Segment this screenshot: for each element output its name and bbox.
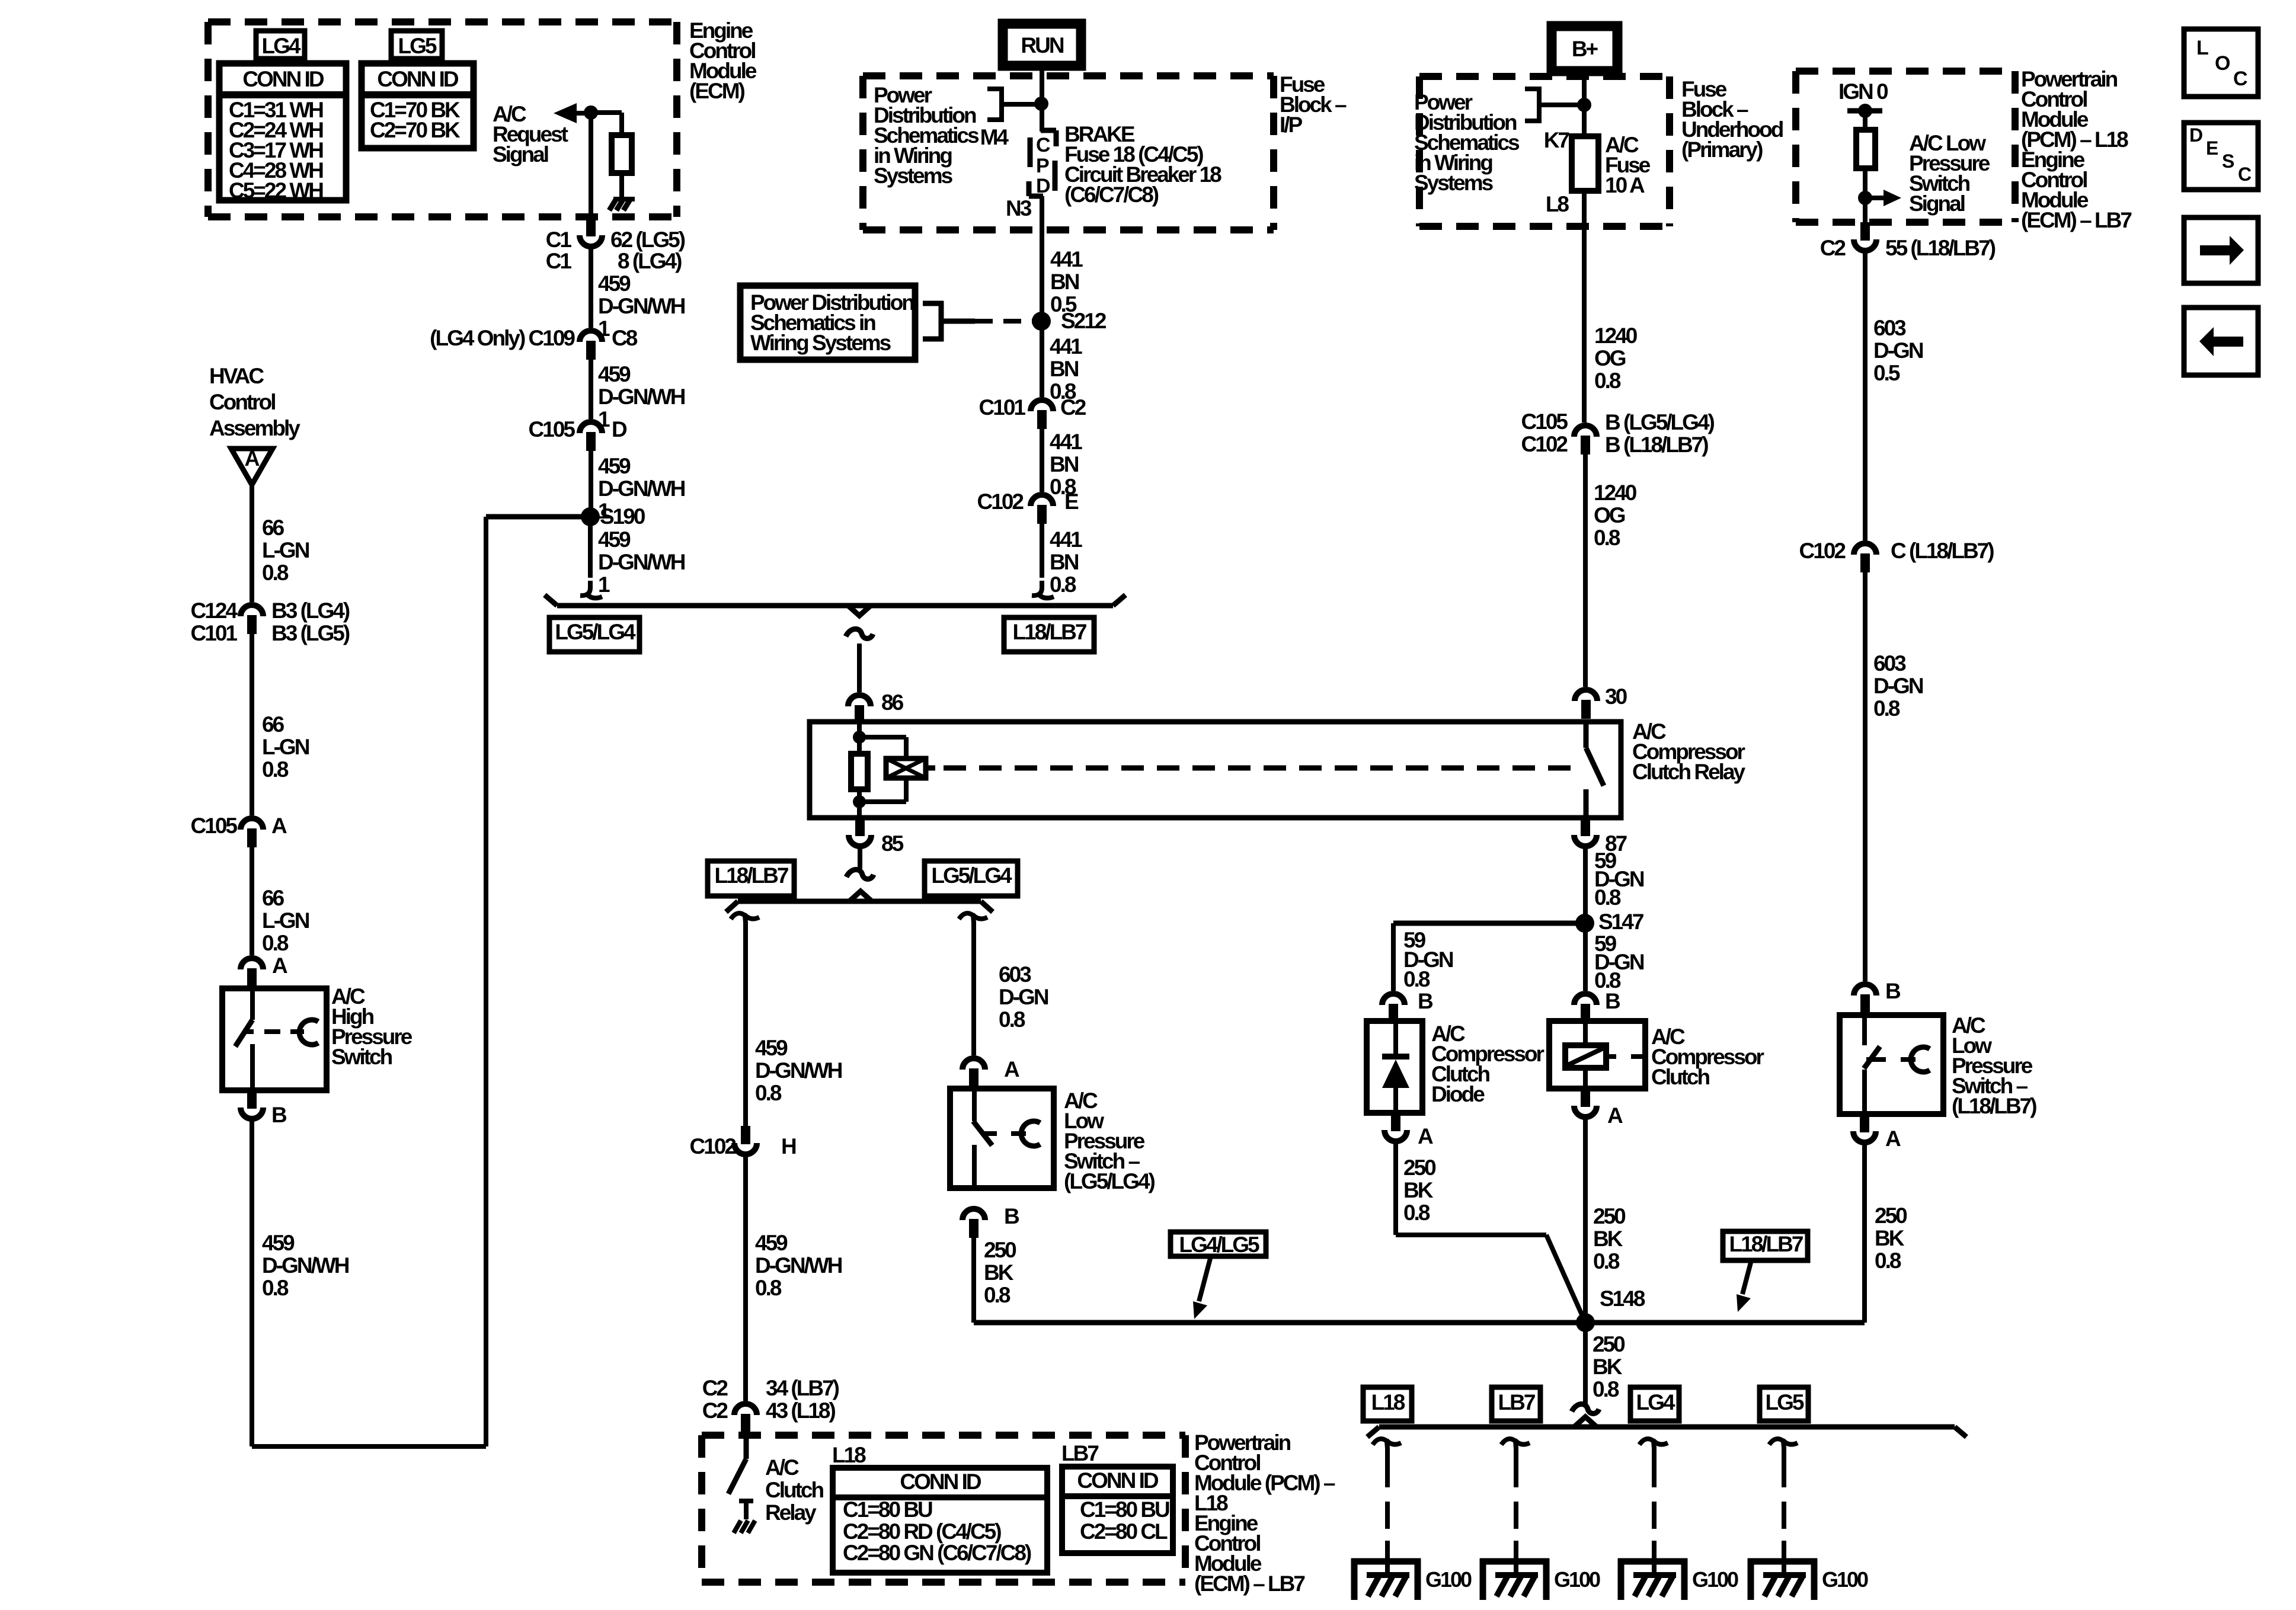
svg-text:LG5/LG4: LG5/LG4 — [555, 620, 636, 644]
connector C1 (ECM) 62/8 — [586, 218, 596, 236]
svg-text:Clutch: Clutch — [1651, 1065, 1710, 1089]
svg-text:BN: BN — [1050, 550, 1079, 574]
connector C102 pin H — [741, 1126, 750, 1144]
wire 459 D-GN/WH segment 1 — [589, 249, 593, 328]
svg-text:603: 603 — [1873, 316, 1906, 340]
svg-text:D-GN/WH: D-GN/WH — [598, 476, 685, 501]
svg-text:BK: BK — [1403, 1178, 1434, 1202]
svg-text:0.8: 0.8 — [1403, 967, 1430, 991]
svg-text:RUN: RUN — [1021, 33, 1063, 57]
svg-text:CONN ID: CONN ID — [900, 1470, 981, 1494]
wire 85 to bus2 with break — [858, 849, 862, 869]
svg-text:C1=80 BU: C1=80 BU — [1080, 1497, 1169, 1522]
wire B+ to fuse block — [1582, 72, 1587, 136]
B+ power feed box — [1552, 26, 1617, 71]
connector pin B at clutch diode — [1382, 994, 1405, 1005]
clutch coil symbol — [1583, 1021, 1588, 1045]
A/C clutch relay ground contact — [739, 1499, 753, 1503]
svg-text:0.5: 0.5 — [1873, 361, 1900, 385]
connector pin A below diode — [1391, 1113, 1400, 1131]
power distribution bracket (I/P) — [987, 87, 1002, 91]
connector label box LG4 — [256, 31, 305, 59]
node: signal sense junction — [1858, 191, 1872, 205]
svg-text:C102: C102 — [1521, 432, 1568, 456]
svg-text:L8: L8 — [1546, 192, 1569, 216]
svg-text:C102: C102 — [977, 489, 1024, 514]
connector pin 87 — [1581, 818, 1590, 836]
svg-text:LB7: LB7 — [1498, 1390, 1535, 1414]
svg-text:34 (LB7): 34 (LB7) — [766, 1376, 839, 1400]
svg-text:G100: G100 — [1554, 1567, 1600, 1592]
fuse BRAKE Fuse 18 / Circuit Breaker 18 (CPD symbol) — [1041, 128, 1056, 133]
node: A/C request junction — [584, 105, 598, 120]
ground G100 (LG4) — [1618, 1558, 1687, 1565]
wire: horizontal into S190 — [486, 514, 590, 520]
svg-text:(ECM) – LB7: (ECM) – LB7 — [1194, 1571, 1304, 1596]
svg-text:S148: S148 — [1600, 1286, 1645, 1311]
ground G100 (L18) — [1351, 1558, 1421, 1565]
wire 250 BK below S148 to ground bus — [1583, 1323, 1588, 1404]
legend box DESC — [2184, 123, 2258, 190]
wire bus to relay pin 86 — [857, 644, 862, 692]
svg-text:441: 441 — [1050, 247, 1083, 271]
svg-text:0.8: 0.8 — [1875, 1249, 1901, 1273]
connector pin B at low pressure switch L18/LB7 — [1854, 984, 1876, 996]
svg-text:L-GN: L-GN — [262, 908, 309, 933]
svg-text:B: B — [1885, 979, 1901, 1003]
svg-text:459: 459 — [598, 271, 631, 296]
svg-text:C102: C102 — [690, 1134, 737, 1158]
relay mechanical link (dashed) — [944, 766, 1574, 771]
svg-text:B: B — [1004, 1204, 1019, 1228]
Fuse Block Underhood dashed box — [1419, 73, 1670, 80]
connector pin A at low pressure switch LG5/LG4 — [962, 1058, 985, 1070]
svg-text:C1: C1 — [546, 228, 572, 252]
svg-text:86: 86 — [881, 690, 904, 715]
ground (ECM internal) — [613, 197, 635, 201]
connector pin 86 — [848, 695, 871, 706]
wire resistor to ground — [619, 173, 624, 198]
svg-text:B3 (LG5): B3 (LG5) — [271, 621, 350, 645]
svg-text:E: E — [2206, 137, 2218, 159]
svg-text:LG5: LG5 — [398, 34, 437, 58]
diode symbol — [1393, 1021, 1398, 1056]
connector label box LG5 — [391, 31, 442, 59]
wire 603 D-GN 0.8 — [1863, 572, 1868, 981]
PCM dashed box (bottom) — [702, 1432, 1185, 1439]
svg-text:G100: G100 — [1692, 1567, 1738, 1592]
svg-text:C105: C105 — [1521, 409, 1568, 434]
svg-text:Clutch Relay: Clutch Relay — [1632, 760, 1746, 784]
connector C2/C2 pins 34/43 — [734, 1404, 757, 1415]
net label box LG5/LG4 — [549, 617, 639, 652]
wire: loop bottom horizontal — [252, 1444, 486, 1449]
svg-text:A/C: A/C — [765, 1455, 799, 1480]
relay switch blade — [1584, 722, 1589, 748]
A/C clutch relay blade (inside PCM) — [744, 1433, 749, 1459]
wire 66 L-GN segment 3 — [250, 847, 254, 955]
connector pin B below switch — [962, 1209, 985, 1220]
svg-text:G100: G100 — [1822, 1567, 1868, 1592]
svg-text:E: E — [1064, 489, 1079, 514]
svg-text:441: 441 — [1050, 527, 1082, 552]
svg-text:10 A: 10 A — [1605, 173, 1645, 197]
svg-text:0.8: 0.8 — [755, 1081, 782, 1105]
svg-text:(ECM) – LB7: (ECM) – LB7 — [2021, 208, 2131, 232]
ECM module dashed box (Engine Control Module) — [208, 18, 677, 25]
svg-text:C8: C8 — [612, 326, 638, 350]
svg-text:L-GN: L-GN — [262, 735, 309, 759]
svg-text:0.8: 0.8 — [1594, 885, 1621, 910]
legend arrow right — [2184, 217, 2258, 283]
net label box LG5/LG4 (middle) — [925, 861, 1018, 896]
net label box LB7 (ground) — [1492, 1387, 1540, 1421]
connector C109 (LG4 Only) pin C8 — [580, 331, 602, 342]
connector pin B at compressor clutch — [1574, 994, 1597, 1005]
Fuse Block I/P dashed box — [863, 72, 1274, 79]
wire 459 D-GN/WH below S190 — [588, 517, 593, 578]
svg-text:C101: C101 — [191, 621, 238, 645]
svg-text:D-GN: D-GN — [999, 985, 1048, 1009]
connector C101 pin C2 — [1031, 400, 1053, 411]
svg-text:(LG4 Only) C109: (LG4 Only) C109 — [430, 326, 575, 350]
svg-text:BN: BN — [1050, 270, 1079, 294]
svg-text:Signal: Signal — [1909, 191, 1965, 216]
svg-text:C2: C2 — [1820, 236, 1846, 260]
break symbol below bus to relay coil — [846, 629, 873, 638]
resistor (ECM internal pull-up) — [612, 135, 632, 173]
svg-text:D-GN: D-GN — [1873, 338, 1923, 363]
net label box L18/LB7 — [1004, 617, 1094, 652]
svg-text:S190: S190 — [600, 504, 645, 529]
dashed link to power distribution — [975, 319, 1036, 324]
connector C102 pin C — [1854, 543, 1876, 555]
svg-text:(Primary): (Primary) — [1681, 137, 1763, 162]
svg-text:459: 459 — [598, 527, 631, 552]
svg-text:BN: BN — [1050, 452, 1079, 476]
svg-text:0.8: 0.8 — [1594, 526, 1620, 550]
A/C Compressor Clutch box — [1549, 1021, 1645, 1089]
svg-text:CONN ID: CONN ID — [377, 67, 459, 91]
svg-text:Switch: Switch — [331, 1045, 392, 1069]
svg-text:M4: M4 — [980, 125, 1009, 149]
svg-text:C1=80 BU: C1=80 BU — [843, 1497, 932, 1522]
svg-text:OG: OG — [1594, 503, 1625, 527]
wire 459 D-GN/WH to PCM — [743, 1157, 748, 1401]
svg-text:B3 (LG4): B3 (LG4) — [271, 598, 350, 623]
svg-text:C124: C124 — [191, 598, 238, 623]
svg-text:A: A — [245, 446, 260, 470]
svg-text:K7: K7 — [1544, 128, 1569, 152]
svg-text:C: C — [2233, 68, 2247, 90]
wire 1240 OG 0.8 — [1582, 191, 1587, 422]
svg-text:85: 85 — [881, 831, 904, 856]
svg-text:Systems: Systems — [1414, 171, 1494, 195]
connector C105 pin A — [241, 818, 263, 830]
svg-text:H: H — [781, 1134, 796, 1158]
svg-text:D-GN/WH: D-GN/WH — [598, 550, 685, 574]
svg-text:OG: OG — [1594, 346, 1626, 370]
callout box L18/LB7 with arrow — [1723, 1231, 1808, 1260]
low pressure switch symbol (L18/LB7) — [1862, 1015, 1867, 1045]
wire 59 D-GN from pin 87 — [1583, 849, 1588, 923]
connector C124/C101 pin B3 — [241, 605, 263, 616]
HVAC control assembly triangle A — [231, 449, 273, 485]
svg-text:C (L18/LB7): C (L18/LB7) — [1891, 539, 1994, 563]
svg-text:66: 66 — [262, 712, 284, 737]
svg-text:0.8: 0.8 — [1593, 1377, 1619, 1401]
svg-text:A: A — [272, 953, 287, 978]
wire RUN to fuse block — [1040, 66, 1044, 132]
high pressure switch symbol — [250, 988, 255, 1020]
resistor (PCM internal) — [1863, 111, 1868, 130]
svg-text:C2: C2 — [702, 1376, 728, 1400]
net label box L18/LB7 (middle) — [708, 861, 794, 896]
svg-text:C105: C105 — [191, 814, 238, 838]
connector C105 pin D — [580, 422, 602, 433]
wire coil to pin 85 — [857, 802, 862, 818]
PCM L18 CONN ID table — [833, 1468, 1047, 1573]
connector pin A below switch (L18/LB7) — [1860, 1114, 1869, 1132]
svg-text:BK: BK — [984, 1260, 1014, 1285]
svg-text:B (LG5/LG4): B (LG5/LG4) — [1605, 410, 1715, 434]
drop hook right (603 wire) — [959, 913, 974, 923]
svg-text:L18/LB7: L18/LB7 — [1729, 1232, 1803, 1256]
svg-text:B+: B+ — [1572, 37, 1598, 61]
wire 603 D-GN 0.5 — [1863, 253, 1868, 540]
node: relay coil top junction — [853, 731, 866, 744]
svg-text:0.8: 0.8 — [984, 1283, 1011, 1307]
svg-text:459: 459 — [755, 1231, 788, 1255]
drop hook left (459 wire) — [731, 913, 746, 923]
low pressure switch symbol (LG5/LG4) — [972, 1089, 977, 1121]
svg-text:BK: BK — [1593, 1227, 1623, 1251]
svg-text:250: 250 — [1593, 1332, 1625, 1356]
wire 250 BK clutch to S148 — [1583, 1119, 1588, 1323]
svg-text:0.8: 0.8 — [1403, 1201, 1430, 1225]
svg-text:C2=70 BK: C2=70 BK — [370, 118, 461, 142]
ground wire LB7 — [1501, 1439, 1516, 1448]
legend arrow left — [2184, 308, 2258, 375]
svg-text:BK: BK — [1875, 1226, 1905, 1250]
node: junction under B+ — [1577, 98, 1591, 112]
svg-text:0.8: 0.8 — [1593, 1249, 1620, 1273]
svg-text:IGN 0: IGN 0 — [1838, 79, 1888, 104]
legend box LOC — [2184, 29, 2258, 97]
svg-text:66: 66 — [262, 886, 284, 910]
svg-text:A: A — [1885, 1126, 1901, 1151]
node: relay coil bottom junction — [853, 795, 866, 808]
svg-text:Assembly: Assembly — [209, 416, 300, 440]
svg-text:BK: BK — [1593, 1355, 1623, 1379]
node S148 — [1576, 1313, 1595, 1332]
svg-text:0.8: 0.8 — [262, 561, 289, 585]
connector pin A below clutch — [1581, 1089, 1590, 1107]
svg-text:CONN ID: CONN ID — [242, 67, 324, 91]
ground G100 (LB7) — [1480, 1558, 1549, 1565]
connector C2 pin 55 — [1860, 222, 1870, 241]
wire 250 BK from diode to S148 — [1393, 1144, 1398, 1235]
svg-text:43 (L18): 43 (L18) — [766, 1398, 836, 1423]
svg-text:L18/LB7: L18/LB7 — [1013, 620, 1086, 644]
svg-text:D-GN/WH: D-GN/WH — [598, 385, 685, 409]
wire 441 BN 0.5 — [1040, 196, 1044, 397]
bus line LG5/LG4 - L18/LB7 (top) — [557, 603, 1113, 609]
svg-text:L18: L18 — [1371, 1390, 1405, 1414]
svg-text:250: 250 — [1403, 1156, 1436, 1180]
wire: ground collector line to S148 — [974, 1320, 1865, 1326]
svg-text:66: 66 — [262, 516, 284, 540]
relay coil (resistor) — [851, 754, 868, 789]
svg-text:C2: C2 — [1060, 395, 1086, 420]
svg-text:B: B — [1418, 989, 1433, 1013]
bracket at power distribution box — [923, 301, 944, 306]
svg-text:L: L — [2196, 37, 2208, 59]
wire end hook into LG5/LG4-L18/LB7 bus — [580, 581, 590, 596]
svg-text:1240: 1240 — [1594, 324, 1638, 348]
svg-text:0.8: 0.8 — [1873, 696, 1900, 721]
svg-text:603: 603 — [999, 962, 1031, 987]
wire 59 D-GN to compressor clutch — [1583, 923, 1588, 991]
relay coil wire from 86 — [857, 722, 862, 737]
svg-text:D-GN/WH: D-GN/WH — [755, 1058, 842, 1083]
ground wire LG5 — [1769, 1439, 1784, 1448]
svg-text:0.8: 0.8 — [999, 1007, 1025, 1032]
wire 459 D-GN/WH from B down-around to S190 — [250, 1121, 254, 1446]
svg-text:603: 603 — [1873, 651, 1906, 676]
ground bus line — [1379, 1425, 1955, 1430]
node: IGN0 junction — [1858, 104, 1872, 118]
svg-text:62 (LG5): 62 (LG5) — [610, 228, 685, 252]
svg-text:S147: S147 — [1598, 910, 1643, 934]
svg-text:CONN ID: CONN ID — [1077, 1468, 1159, 1493]
connector C102 pin E — [1031, 495, 1053, 506]
svg-text:N3: N3 — [1006, 196, 1032, 220]
svg-text:LG4: LG4 — [262, 34, 301, 58]
svg-text:0.8: 0.8 — [755, 1276, 782, 1300]
wire end hook into bus — [1032, 581, 1042, 596]
A/C Compressor Clutch Diode box — [1367, 1021, 1422, 1113]
Power Distribution Schematics in Wiring Systems box — [740, 286, 915, 360]
svg-text:0.8: 0.8 — [1594, 369, 1621, 393]
LG5 CONN ID table — [362, 63, 474, 148]
svg-text:L18/LB7: L18/LB7 — [715, 863, 788, 888]
node: junction under RUN — [1034, 97, 1048, 111]
svg-text:Systems: Systems — [874, 164, 953, 188]
wire 441 BN 0.8 segment 3 — [1040, 524, 1044, 578]
svg-text:D: D — [1036, 175, 1050, 197]
node S212 — [1032, 312, 1051, 331]
svg-text:L18: L18 — [832, 1443, 866, 1467]
svg-text:Diode: Diode — [1431, 1082, 1485, 1106]
svg-text:LB7: LB7 — [1061, 1441, 1098, 1465]
svg-text:A: A — [1607, 1103, 1623, 1128]
wire 459 D-GN/WH segment 3 — [589, 451, 593, 517]
wire 59 D-GN diode branch down — [1391, 923, 1396, 991]
svg-text:250: 250 — [1593, 1204, 1626, 1228]
net label box L18 (ground) — [1363, 1387, 1412, 1421]
svg-text:441: 441 — [1050, 430, 1082, 454]
svg-text:Wiring Systems: Wiring Systems — [750, 331, 891, 355]
svg-text:(ECM): (ECM) — [689, 79, 745, 103]
svg-text:C105: C105 — [529, 417, 575, 441]
svg-text:A: A — [1418, 1124, 1433, 1148]
wire 459 D-GN/WH from bus2 — [743, 921, 748, 1126]
wire 66 L-GN segment 1 — [250, 485, 254, 602]
PCM LB7 CONN ID table — [1062, 1467, 1173, 1553]
svg-text:D-GN/WH: D-GN/WH — [755, 1253, 842, 1278]
node S147 — [1575, 914, 1594, 933]
wire: A/C request signal down to C1 — [589, 113, 593, 218]
svg-text:459: 459 — [262, 1231, 295, 1255]
svg-text:LG5: LG5 — [1766, 1390, 1804, 1414]
A/C Compressor Clutch Relay box — [810, 722, 1621, 818]
wire to pull-up resistor — [591, 110, 622, 115]
svg-text:B: B — [271, 1103, 287, 1127]
svg-text:55 (L18/LB7): 55 (L18/LB7) — [1885, 236, 1996, 260]
svg-text:0.8: 0.8 — [262, 1276, 289, 1300]
svg-text:D: D — [612, 417, 627, 441]
wire 603 D-GN from bus2 — [971, 921, 976, 1055]
svg-text:LG4: LG4 — [1636, 1390, 1675, 1414]
svg-text:C102: C102 — [1799, 539, 1846, 563]
svg-text:D-GN: D-GN — [1873, 674, 1923, 698]
svg-text:G100: G100 — [1425, 1567, 1472, 1592]
svg-text:D-GN/WH: D-GN/WH — [262, 1253, 349, 1278]
svg-text:C2: C2 — [702, 1398, 728, 1423]
wire S147 branch to diode — [1393, 921, 1585, 926]
A/C Low Pressure Switch (L18/LB7) box — [1840, 1015, 1943, 1114]
A/C Fuse 10A — [1572, 136, 1598, 191]
svg-text:C101: C101 — [979, 395, 1026, 420]
svg-text:8 (LG4): 8 (LG4) — [618, 249, 682, 273]
svg-text:B: B — [1605, 989, 1620, 1013]
svg-text:D: D — [2189, 124, 2202, 146]
node S190 — [581, 507, 600, 526]
svg-text:Clutch: Clutch — [765, 1478, 824, 1502]
svg-text:459: 459 — [598, 454, 631, 478]
ground wire L18 — [1373, 1439, 1387, 1448]
LG4 CONN ID table — [219, 63, 346, 200]
connector C105/C102 pin B — [1574, 425, 1597, 437]
svg-text:I/P: I/P — [1280, 113, 1303, 137]
svg-text:D-GN/WH: D-GN/WH — [598, 294, 685, 318]
svg-text:250: 250 — [984, 1238, 1016, 1262]
svg-text:LG4/LG5: LG4/LG5 — [1179, 1233, 1259, 1257]
RUN power feed box — [1003, 24, 1081, 66]
wire 1240 OG 0.8 segment 2 to relay pin 30 — [1583, 454, 1588, 687]
callout box LG4/LG5 with arrow — [1171, 1232, 1266, 1256]
svg-text:BN: BN — [1050, 357, 1079, 381]
svg-text:A: A — [271, 814, 287, 838]
connector pin A at high pressure switch — [241, 958, 263, 969]
svg-text:A: A — [1004, 1057, 1019, 1081]
svg-text:(LG5/LG4): (LG5/LG4) — [1064, 1169, 1155, 1193]
svg-text:459: 459 — [755, 1036, 788, 1060]
wire 66 L-GN segment 2 — [250, 634, 254, 815]
A/C request arrow — [554, 103, 577, 123]
connector pin 85 — [855, 818, 865, 836]
connector pin 30 — [1575, 690, 1597, 701]
svg-text:C1: C1 — [546, 249, 572, 273]
net label box LG5 (ground) — [1760, 1387, 1808, 1421]
svg-text:S: S — [2222, 151, 2234, 172]
A/C low pressure switch signal arrow — [1865, 196, 1885, 200]
connector pin B below high pressure switch — [247, 1090, 257, 1109]
wire 459 D-GN/WH segment 2 — [589, 360, 593, 419]
ground G100 (LG5) — [1748, 1558, 1817, 1565]
svg-text:1: 1 — [598, 572, 610, 597]
